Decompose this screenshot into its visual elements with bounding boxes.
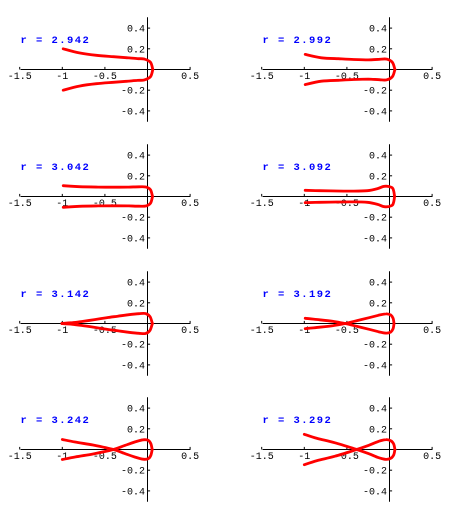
y tick -0.4, panel 4 [390, 237, 393, 239]
x tick -0.5, panel 5 [104, 321, 106, 324]
red parametric curve, lower branch (mirror), panel 6 [305, 318, 394, 333]
svg-text:-1.5: -1.5 [8, 452, 32, 463]
svg-text:0.4: 0.4 [369, 25, 387, 36]
x tick 0.5, panel 4 [431, 194, 433, 197]
plot panel 3: r = 3.042 [8, 144, 199, 249]
x tick -1.5, panel 5 [19, 321, 21, 324]
y tick -0.4, panel 7 [148, 490, 151, 492]
x tick -0.5, panel 3 [104, 194, 106, 197]
svg-text:-0.2: -0.2 [363, 87, 387, 98]
svg-text:0.2: 0.2 [127, 45, 145, 56]
x-axis line (-1.5 to 0.5), panel 1 [21, 69, 191, 71]
y tick -0.2, panel 2 [390, 89, 393, 91]
plot panel 1: r = 2.942 [8, 17, 199, 122]
svg-text:-1.5: -1.5 [8, 199, 32, 210]
red parametric curve, upper branch, panel 8 [304, 440, 395, 465]
svg-text:-1.5: -1.5 [250, 326, 274, 337]
y-axis line (-0.5 to 0.5), panel 2 [389, 17, 391, 122]
x tick -1, panel 6 [303, 321, 305, 324]
red parametric curve, upper branch, panel 1 [63, 49, 153, 70]
svg-text:r = 2.992: r = 2.992 [263, 35, 333, 47]
svg-text:0.2: 0.2 [127, 299, 145, 310]
x-axis line (-1.5 to 0.5), panel 5 [21, 323, 191, 325]
y tick 0.4, panel 6 [390, 281, 393, 283]
svg-text:-0.2: -0.2 [121, 214, 145, 225]
svg-text:0.5: 0.5 [181, 72, 199, 83]
svg-text:-0.4: -0.4 [121, 234, 145, 245]
y tick 0.2, panel 5 [148, 302, 151, 304]
x tick 0.5, panel 7 [189, 447, 191, 450]
y tick -0.4, panel 3 [148, 237, 151, 239]
svg-text:r = 3.092: r = 3.092 [263, 162, 333, 174]
y tick -0.4, panel 2 [390, 110, 393, 112]
svg-text:0.5: 0.5 [423, 199, 441, 210]
y-axis line (-0.5 to 0.5), panel 8 [389, 397, 391, 502]
x-axis line (-1.5 to 0.5), panel 6 [263, 323, 433, 325]
x-axis line (-1.5 to 0.5), panel 3 [21, 196, 191, 198]
x tick 0.5, panel 8 [431, 447, 433, 450]
svg-text:-0.2: -0.2 [363, 341, 387, 352]
plot panel 8: r = 3.292 [250, 397, 441, 502]
y tick 0.4, panel 3 [148, 154, 151, 156]
svg-text:0.4: 0.4 [369, 152, 387, 163]
x tick -1, panel 8 [303, 447, 305, 450]
svg-text:0.5: 0.5 [423, 326, 441, 337]
red parametric curve, lower branch (mirror), panel 7 [62, 440, 152, 460]
y tick 0.2, panel 1 [148, 48, 151, 50]
svg-text:-1: -1 [56, 72, 68, 83]
red parametric curve, lower branch (mirror), panel 2 [305, 70, 395, 85]
y tick -0.4, panel 8 [390, 490, 393, 492]
y tick -0.2, panel 6 [390, 343, 393, 345]
svg-text:-0.2: -0.2 [121, 467, 145, 478]
y tick -0.2, panel 7 [148, 469, 151, 471]
y tick 0.2, panel 7 [148, 428, 151, 430]
y tick -0.4, panel 1 [148, 110, 151, 112]
x tick -0.5, panel 8 [346, 447, 348, 450]
y tick 0.4, panel 1 [148, 27, 151, 29]
svg-text:-0.4: -0.4 [363, 234, 387, 245]
svg-text:-0.4: -0.4 [121, 361, 145, 372]
svg-text:r = 3.192: r = 3.192 [263, 289, 333, 301]
svg-text:-1.5: -1.5 [8, 72, 32, 83]
svg-text:0.5: 0.5 [181, 326, 199, 337]
svg-text:-1.5: -1.5 [250, 452, 274, 463]
x tick 0.5, panel 3 [189, 194, 191, 197]
svg-text:0.2: 0.2 [369, 425, 387, 436]
svg-text:r = 3.142: r = 3.142 [21, 289, 91, 301]
svg-text:-1.5: -1.5 [8, 326, 32, 337]
red parametric curve, lower branch (mirror), panel 4 [305, 197, 394, 207]
svg-text:-1: -1 [56, 326, 68, 337]
x tick -1.5, panel 4 [261, 194, 263, 197]
svg-text:r = 3.242: r = 3.242 [21, 415, 91, 427]
svg-text:0.2: 0.2 [127, 425, 145, 436]
y-axis line (-0.5 to 0.5), panel 5 [147, 271, 149, 376]
x-axis line (-1.5 to 0.5), panel 8 [263, 449, 433, 451]
x-axis line (-1.5 to 0.5), panel 4 [263, 196, 433, 198]
y tick -0.2, panel 3 [148, 216, 151, 218]
svg-text:r = 3.292: r = 3.292 [263, 415, 333, 427]
y tick -0.2, panel 4 [390, 216, 393, 218]
svg-text:-0.2: -0.2 [121, 341, 145, 352]
x tick -1.5, panel 1 [19, 67, 21, 70]
svg-text:-0.4: -0.4 [121, 487, 145, 498]
x tick 0.5, panel 5 [189, 321, 191, 324]
plot panel 7: r = 3.242 [8, 397, 199, 502]
svg-text:0.5: 0.5 [423, 452, 441, 463]
svg-text:-0.4: -0.4 [363, 361, 387, 372]
plot panel 2: r = 2.992 [250, 17, 441, 122]
x tick -0.5, panel 1 [104, 67, 106, 70]
y tick -0.2, panel 5 [148, 343, 151, 345]
red parametric curve, upper branch, panel 3 [63, 186, 152, 197]
red parametric curve, lower branch (mirror), panel 1 [63, 70, 153, 91]
svg-text:-1: -1 [298, 452, 310, 463]
y tick -0.2, panel 8 [390, 469, 393, 471]
svg-text:-0.4: -0.4 [363, 107, 387, 118]
svg-text:0.2: 0.2 [127, 172, 145, 183]
svg-text:-0.5: -0.5 [335, 326, 359, 337]
plot panel 6: r = 3.192 [250, 271, 441, 376]
svg-text:0.5: 0.5 [181, 452, 199, 463]
y tick 0.4, panel 5 [148, 281, 151, 283]
svg-text:0.4: 0.4 [369, 279, 387, 290]
svg-text:0.2: 0.2 [369, 299, 387, 310]
y tick 0.2, panel 8 [390, 428, 393, 430]
x tick -1.5, panel 7 [19, 447, 21, 450]
y tick 0.4, panel 8 [390, 407, 393, 409]
y-axis line (-0.5 to 0.5), panel 4 [389, 144, 391, 249]
y-axis line (-0.5 to 0.5), panel 3 [147, 144, 149, 249]
x tick -0.5, panel 7 [104, 447, 106, 450]
x tick 0.5, panel 1 [189, 67, 191, 70]
y tick 0.2, panel 3 [148, 175, 151, 177]
svg-text:0.4: 0.4 [369, 405, 387, 416]
svg-text:0.4: 0.4 [127, 25, 145, 36]
y tick 0.2, panel 2 [390, 48, 393, 50]
y tick -0.4, panel 6 [390, 364, 393, 366]
svg-text:r = 3.042: r = 3.042 [21, 162, 91, 174]
svg-text:0.5: 0.5 [423, 72, 441, 83]
x tick 0.5, panel 2 [431, 67, 433, 70]
x tick -1, panel 3 [61, 194, 63, 197]
svg-text:0.4: 0.4 [127, 405, 145, 416]
x tick -1, panel 1 [61, 67, 63, 70]
y tick 0.4, panel 7 [148, 407, 151, 409]
svg-text:-0.4: -0.4 [121, 107, 145, 118]
svg-text:-1.5: -1.5 [250, 72, 274, 83]
x tick -0.5, panel 2 [346, 67, 348, 70]
red parametric curve, upper branch, panel 5 [62, 313, 152, 323]
svg-text:0.4: 0.4 [127, 152, 145, 163]
svg-text:-0.4: -0.4 [363, 487, 387, 498]
y tick 0.4, panel 2 [390, 27, 393, 29]
red parametric curve, lower branch (mirror), panel 8 [304, 434, 395, 459]
x tick -1, panel 2 [303, 67, 305, 70]
x tick -1, panel 5 [61, 321, 63, 324]
y tick 0.2, panel 4 [390, 175, 393, 177]
red parametric curve, upper branch, panel 6 [305, 314, 394, 329]
x tick -0.5, panel 4 [346, 194, 348, 197]
svg-text:0.2: 0.2 [369, 45, 387, 56]
svg-text:-0.2: -0.2 [363, 214, 387, 225]
plot panel 4: r = 3.092 [250, 144, 441, 249]
y tick 0.2, panel 6 [390, 302, 393, 304]
y-axis line (-0.5 to 0.5), panel 6 [389, 271, 391, 376]
plot panel 5: r = 3.142 [8, 271, 199, 376]
y-axis line (-0.5 to 0.5), panel 7 [147, 397, 149, 502]
svg-text:-1: -1 [298, 72, 310, 83]
svg-text:-1.5: -1.5 [250, 199, 274, 210]
svg-text:-0.2: -0.2 [363, 467, 387, 478]
x-axis line (-1.5 to 0.5), panel 2 [263, 69, 433, 71]
red parametric curve, upper branch, panel 7 [62, 440, 152, 460]
red parametric curve, upper branch, panel 2 [305, 54, 395, 69]
x tick -1.5, panel 8 [261, 447, 263, 450]
svg-text:0.5: 0.5 [181, 199, 199, 210]
y tick -0.2, panel 1 [148, 89, 151, 91]
x-axis line (-1.5 to 0.5), panel 7 [21, 449, 191, 451]
svg-text:0.2: 0.2 [369, 172, 387, 183]
x tick -1.5, panel 2 [261, 67, 263, 70]
x tick -0.5, panel 6 [346, 321, 348, 324]
y tick -0.4, panel 5 [148, 364, 151, 366]
x tick -1.5, panel 6 [261, 321, 263, 324]
svg-text:-1: -1 [298, 199, 310, 210]
red parametric curve, upper branch, panel 4 [305, 186, 394, 196]
red parametric curve, lower branch (mirror), panel 5 [62, 324, 152, 334]
x tick -1, panel 7 [61, 447, 63, 450]
y tick 0.4, panel 4 [390, 154, 393, 156]
y-axis line (-0.5 to 0.5), panel 1 [147, 17, 149, 122]
svg-text:-0.2: -0.2 [121, 87, 145, 98]
svg-text:r = 2.942: r = 2.942 [21, 35, 91, 47]
x tick 0.5, panel 6 [431, 321, 433, 324]
svg-text:0.4: 0.4 [127, 279, 145, 290]
red parametric curve, lower branch (mirror), panel 3 [63, 197, 152, 208]
x tick -1, panel 4 [303, 194, 305, 197]
x tick -1.5, panel 3 [19, 194, 21, 197]
